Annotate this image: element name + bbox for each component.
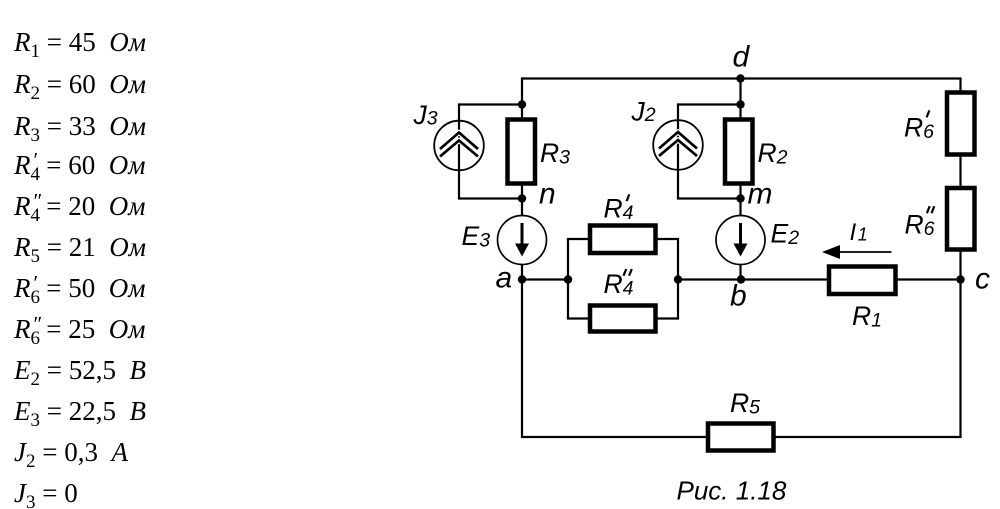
svg-text:R5: R5 [730,388,760,419]
resistor R4'' [590,306,656,332]
svg-text:J2: J2 [631,97,656,127]
resistor R6'' [947,188,975,250]
value label R6'' = 25 Ом [14,315,145,347]
value label J2 = 0,3 А [14,438,128,466]
value label R4' = 60 Ом [14,151,145,183]
wire left branch vertical (through R3 and E3 down to bottom rail) [521,79,523,438]
svg-text:E2: E2 [771,219,800,250]
EMF source E3 [498,216,547,265]
wire J3 loop top stub [458,103,522,105]
node c junction dot [956,275,964,283]
svg-text:b: b [730,280,747,313]
wire parallel block top branch [567,238,679,240]
current arrow I1 [822,245,892,259]
wire bottom rail (through R5) [521,436,962,438]
value label R2 = 60 Ом [14,70,146,98]
EMF source E2 [716,216,765,265]
svg-text:n: n [539,178,556,211]
wire top d-rail from left corner to right corner [521,77,962,79]
wire middle branch vertical d to b (through R2 and E2) [739,79,741,280]
svg-text:R6: R6 [904,113,934,144]
svg-text:R6: R6 [905,210,935,241]
wire J3 loop bottom stub [458,197,522,199]
svg-text:Рис. 1.18: Рис. 1.18 [677,476,787,506]
wire parallel block right vertical [677,239,679,319]
value label R4'' = 20 Ом [14,192,145,224]
value label E3 = 22,5 В [14,397,146,425]
value label E2 = 52,5 В [14,356,146,384]
svg-text:m: m [748,178,773,211]
node d junction dot [736,74,744,82]
svg-text:I1: I1 [850,219,868,246]
current source J2 [653,120,703,170]
svg-text:R1: R1 [852,301,882,332]
junction dot parallel-left [564,275,572,283]
svg-text:J3: J3 [413,100,438,130]
node b junction dot [737,275,745,283]
node n junction dot [518,194,526,202]
wire parallel block left vertical [567,239,569,319]
value label R5 = 21 Ом [14,233,146,261]
wire J2 loop top stub [677,103,741,105]
current source J3 [434,121,484,171]
resistor R2 [725,120,753,184]
wire right branch vertical (through R6' R6'' down to bottom rail) [959,79,961,438]
wire b to c main horizontal (through R1) [678,278,961,280]
wire parallel block bottom branch [567,317,679,319]
value label J3 = 0 [14,479,78,507]
resistor R4' [590,226,656,254]
svg-text:E3: E3 [462,221,491,252]
node a junction dot [518,275,526,283]
resistor R5 [708,424,774,451]
resistor R1 [829,267,896,295]
value label R3 = 33 Ом [14,112,146,140]
value label R1 = 45 Ом [14,28,146,56]
value label R6' = 50 Ом [14,274,145,306]
junction dot left (J3/R3 top) [518,100,526,108]
resistor R6' [947,93,975,155]
junction dot middle (J2/R2 top) [736,100,744,108]
wire J2 loop left vertical [677,105,679,199]
wire a to parallel block left node [522,278,568,280]
wire J2 loop bottom stub [677,197,741,199]
svg-text:R3: R3 [540,138,570,169]
svg-text:c: c [975,263,990,296]
svg-text:a: a [496,262,513,295]
resistor R3 [508,120,536,184]
svg-text:d: d [733,41,751,74]
svg-text:R4: R4 [604,194,634,225]
svg-text:R2: R2 [758,138,788,169]
wire J3 loop left vertical [458,105,460,199]
node m junction dot [736,194,744,202]
junction dot parallel-right [674,275,682,283]
